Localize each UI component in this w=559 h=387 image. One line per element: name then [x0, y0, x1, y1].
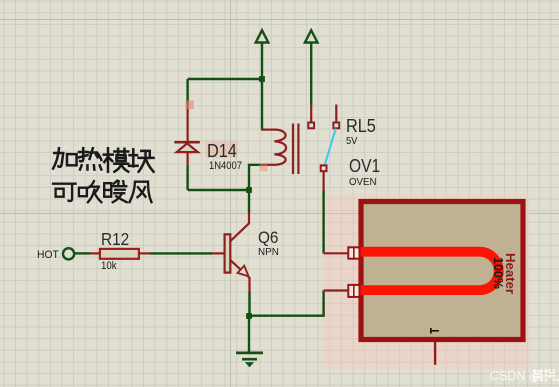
inner selection highlight around oven OV1 [324, 197, 527, 365]
diode D14 lead lower (red) [187, 152, 189, 167]
terminal HOT circle [63, 248, 74, 259]
relay RL5 contact pin square left [308, 123, 314, 129]
relay RL5 core bars [293, 124, 298, 175]
relay RL5 coil windings [274, 130, 286, 165]
hanzi 风 [130, 182, 152, 203]
oven OV1 top pin lead (red) [324, 252, 349, 254]
relay RL5 common pin lead (red) [323, 171, 325, 191]
oven OV1 pin 3 marker [431, 328, 439, 334]
label background of D14 [205, 141, 239, 159]
selection mark on coil bottom lead [260, 164, 268, 171]
watermark CSDN @xx [490, 370, 542, 383]
transistor Q2 collector lead (red vertical) [248, 212, 250, 224]
watermark hanzi 2 [544, 369, 556, 381]
text Heater (rotated) [504, 253, 517, 294]
hanzi 块 [129, 149, 153, 171]
relay RL5 contact stub lead right (red) [335, 105, 337, 124]
wire: ground node to oven bottom terminal (green) [249, 291, 324, 316]
wire: HOT terminal to R12 (green) [74, 252, 90, 254]
wire: switch to oven top terminal (green) [322, 191, 324, 254]
oven OV1 heater element [360, 252, 499, 290]
text NPN [258, 248, 279, 258]
selection mark on D14 net [185, 101, 194, 110]
power symbol arrow right [305, 30, 318, 42]
relay RL5 switch blade (cyan) [325, 129, 336, 166]
power symbol arrow left [256, 30, 269, 42]
oven OV1 bottom pin lead (red) [324, 289, 349, 291]
watermark period [557, 379, 559, 381]
oven OV1 bottom terminal pin box [348, 285, 359, 297]
hanzi 吹 [79, 181, 102, 202]
wire: emitter column green upper [248, 190, 250, 213]
major grid line horizontal y=19 [0, 19, 559, 20]
hanzi 暖 [104, 181, 127, 203]
wire: ground stem (green) [248, 316, 250, 352]
hanzi 模 [104, 148, 128, 171]
diode D14 symbol (cathode bar + triangle) [174, 142, 200, 152]
selection highlight box around oven OV1 [321, 194, 530, 369]
text OV1 [349, 157, 380, 176]
junction node at power rail / D14 [259, 76, 265, 82]
wire: right power rail vertical (green) [310, 43, 312, 106]
transistor Q6 base lead (red) [211, 252, 225, 254]
junction node at collector / D14 / relay coil [246, 187, 252, 193]
text 10k [101, 261, 117, 272]
text Q6 [258, 230, 278, 247]
wire: D14 branch vertical upper (green part) [186, 79, 188, 104]
resistor R12 lead left (red) [89, 252, 100, 254]
relay RL5 coil bottom lead (red) [261, 164, 276, 166]
oven OV1 bottom pin lead [434, 342, 436, 365]
relay RL5 coil top lead (red) [261, 129, 276, 131]
hanzi 热 [79, 148, 101, 169]
relay RL5 contact pin lead left (red) [310, 105, 312, 124]
wire: D14 top horizontal [188, 78, 262, 80]
oven OV1 body [361, 202, 523, 340]
text 5V [346, 137, 357, 147]
text R12 [101, 231, 129, 249]
hanzi 加 [53, 148, 76, 168]
oven OV1 top terminal pin box [348, 247, 359, 258]
wire: D14 branch vertical lower (green) [186, 166, 188, 190]
major grid line horizontal y=213 [0, 213, 559, 214]
text 1N4007 [209, 161, 242, 172]
watermark hanzi 1 [533, 369, 543, 381]
junction node at ground [246, 313, 252, 319]
text OVEN [349, 178, 376, 188]
transistor Q6 emitter lead (red vertical) [248, 277, 250, 293]
major grid line vertical x=230 [230, 0, 231, 387]
wire: bottom horizontal D14 to collector node [188, 189, 249, 191]
wire: base wire from R12 (green) [150, 252, 213, 254]
relay RL5 contact pin square right [333, 123, 339, 129]
transistor Q6 symbol [225, 224, 249, 278]
wire: coil bottom to junction [249, 165, 261, 190]
text 100% (rotated) [492, 257, 505, 289]
resistor R12 lead right (red) [139, 252, 151, 254]
relay RL5 common pin square bottom [321, 165, 327, 171]
ground symbol [236, 353, 263, 367]
diode D14 lead upper (red) [187, 103, 189, 142]
wire: emitter to ground node (green) [248, 292, 250, 317]
hanzi 可 [53, 184, 76, 201]
resistor R12 body [100, 249, 139, 259]
text RL5 [346, 117, 376, 136]
text HOT [37, 250, 59, 261]
wire: left power rail vertical [261, 43, 263, 130]
text D14 [207, 142, 237, 161]
